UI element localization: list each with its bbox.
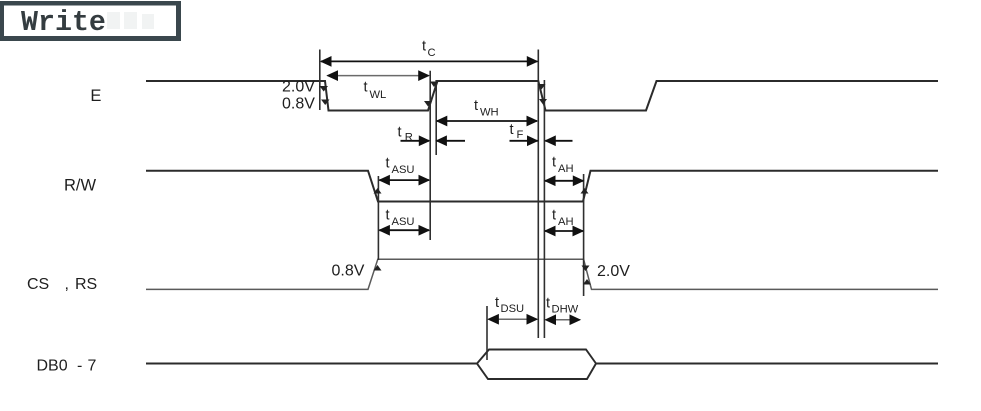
wire: CS,RS waveform bbox=[146, 259, 938, 289]
svg-text:ASU: ASU bbox=[392, 164, 415, 176]
dimension tWL arrow bbox=[328, 71, 429, 80]
dimension tDSU arrow bbox=[488, 315, 537, 324]
dimension tDHW arrow bbox=[546, 315, 581, 324]
svg-text:R/W: R/W bbox=[64, 177, 97, 195]
reference line D (E fall 2 bottom) bbox=[543, 80, 545, 338]
svg-text:Write: Write bbox=[21, 7, 106, 39]
svg-text:E: E bbox=[90, 87, 101, 105]
svg-text:AH: AH bbox=[558, 216, 574, 228]
threshold tick R/W fall 0.8V bbox=[374, 188, 382, 194]
wire: R/W waveform bbox=[146, 171, 938, 202]
threshold tick E fall 2.0V bbox=[320, 86, 329, 92]
reference line B (E rise) bbox=[429, 71, 431, 240]
wire: DB0-7 right line bbox=[596, 363, 938, 365]
svg-text:t: t bbox=[510, 122, 514, 138]
threshold tick E fall2 0.8V bbox=[539, 99, 547, 105]
reference line at R/W fall / CS rise bbox=[377, 176, 379, 260]
wire: E waveform bbox=[146, 81, 938, 111]
svg-text:t: t bbox=[386, 156, 390, 172]
svg-text:DB0-7: DB0-7 bbox=[37, 358, 97, 375]
dimension tWH arrow bbox=[437, 116, 537, 125]
svg-text:t: t bbox=[398, 125, 402, 141]
threshold tick CS rise 2.0V bbox=[374, 265, 382, 271]
dimension tR arrows bbox=[401, 136, 466, 145]
threshold tick E rise 0.8V bbox=[424, 101, 432, 107]
dimension tC arrow bbox=[321, 57, 537, 66]
svg-text:DHW: DHW bbox=[552, 304, 579, 316]
svg-text:0.8V: 0.8V bbox=[282, 96, 315, 113]
svg-text:t: t bbox=[474, 98, 478, 114]
reference line A (E fall) bbox=[319, 50, 321, 111]
Write title box bbox=[0, 1, 181, 41]
svg-text:2.0V: 2.0V bbox=[282, 79, 315, 96]
svg-text:t: t bbox=[552, 208, 556, 224]
dimension tAH arrow row2 bbox=[545, 176, 583, 185]
reference line at R/W rise / CS fall bbox=[583, 174, 585, 296]
dimension tF arrows bbox=[510, 136, 573, 145]
svg-text:DSU: DSU bbox=[501, 303, 525, 315]
svg-text:WL: WL bbox=[370, 89, 387, 101]
svg-text:t: t bbox=[546, 296, 550, 312]
svg-text:F: F bbox=[517, 129, 524, 141]
dimension tASU arrow row3 bbox=[379, 226, 429, 235]
svg-text:t: t bbox=[495, 295, 499, 311]
threshold tick E fall2 2.0V bbox=[538, 84, 546, 90]
svg-text:ASU: ASU bbox=[392, 216, 415, 228]
svg-text:t: t bbox=[364, 80, 368, 96]
threshold tick R/W rise 0.8V bbox=[581, 188, 589, 194]
ghost text in title box bbox=[107, 12, 154, 29]
svg-text:AH: AH bbox=[558, 163, 574, 175]
svg-text:WH: WH bbox=[480, 107, 499, 119]
threshold tick CS fall 2.0V bbox=[582, 266, 590, 272]
reference line at DSU start bbox=[486, 306, 488, 360]
dimension tASU arrow row2 bbox=[379, 176, 429, 185]
threshold tick E fall 0.8V bbox=[321, 100, 330, 106]
DB0-7 data-valid hexagon bbox=[477, 350, 596, 380]
dimension tAH arrow row3 bbox=[545, 226, 583, 235]
svg-text:R: R bbox=[405, 132, 413, 144]
svg-text:2.0V: 2.0V bbox=[597, 263, 630, 280]
threshold tick CS fall 0.8V bbox=[583, 279, 591, 285]
svg-text:t: t bbox=[552, 155, 556, 171]
svg-text:t: t bbox=[386, 208, 390, 224]
reference line B2 (E rise top) bbox=[435, 80, 437, 155]
svg-text:t: t bbox=[422, 39, 426, 55]
wire: DB0-7 left line bbox=[146, 363, 477, 365]
reference line C (E fall 2) bbox=[537, 50, 539, 339]
svg-text:0.8V: 0.8V bbox=[332, 263, 365, 280]
threshold tick E rise 2.0V bbox=[430, 82, 438, 88]
svg-text:C: C bbox=[428, 47, 436, 59]
